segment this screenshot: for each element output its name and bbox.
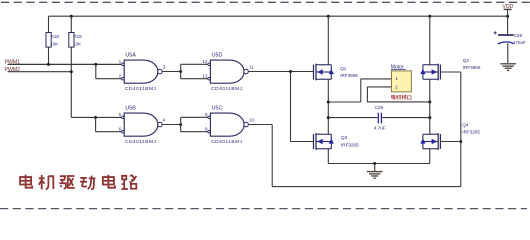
svg-text:U5B: U5B [125, 105, 136, 111]
svg-text:CD4011BMJ: CD4011BMJ [211, 86, 242, 92]
svg-text:C28: C28 [514, 33, 523, 38]
svg-text:Q3: Q3 [341, 135, 348, 140]
svg-text:10: 10 [249, 117, 254, 122]
svg-text:U5C: U5C [212, 105, 223, 111]
svg-text:IRF3205: IRF3205 [462, 129, 480, 134]
svg-text:Q4: Q4 [462, 122, 469, 127]
svg-text:CD4011BMJ: CD4011BMJ [125, 139, 156, 145]
svg-text:11: 11 [249, 64, 254, 69]
svg-text:10K: 10K [50, 41, 58, 46]
svg-text:PWM2: PWM2 [5, 67, 21, 73]
svg-text:R18: R18 [51, 34, 60, 39]
svg-text:U5A: U5A [125, 52, 136, 58]
svg-text:IRF3205: IRF3205 [341, 143, 359, 148]
svg-text:CD4011BMJ: CD4011BMJ [211, 139, 242, 145]
svg-text:470uF: 470uF [513, 40, 526, 45]
svg-text:4.7uF: 4.7uF [374, 126, 386, 131]
svg-text:U5D: U5D [212, 52, 223, 58]
svg-text:C29: C29 [375, 105, 384, 110]
svg-text:Q2: Q2 [463, 58, 470, 63]
svg-text:IRF4905: IRF4905 [463, 65, 481, 70]
svg-text:CD4011BMJ: CD4011BMJ [125, 86, 156, 92]
svg-text:PWM1: PWM1 [5, 59, 21, 65]
svg-text:IRF4905: IRF4905 [340, 73, 358, 78]
svg-text:12: 12 [203, 59, 208, 64]
svg-text:R19: R19 [73, 34, 82, 39]
svg-text:Q1: Q1 [340, 66, 347, 71]
svg-text:10K: 10K [73, 41, 81, 46]
svg-text:13: 13 [203, 74, 208, 79]
